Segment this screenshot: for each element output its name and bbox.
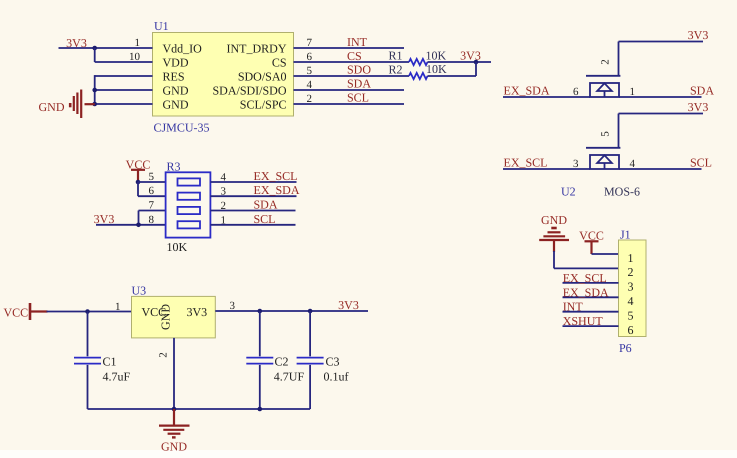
svg-text:SCL: SCL xyxy=(254,212,276,226)
svg-text:EX_SCL: EX_SCL xyxy=(563,271,607,285)
wire U1 pin2 SCL xyxy=(294,103,405,105)
svg-text:CS: CS xyxy=(347,49,362,63)
R3 internal resistor 1 xyxy=(178,178,201,185)
power symbol VCC bar (U3) xyxy=(30,303,48,320)
IC U1 body CJMCU-35 xyxy=(153,33,294,117)
wire J1 pin4 EX_SDA xyxy=(563,296,619,298)
svg-text:VDD: VDD xyxy=(163,55,189,69)
wire R3 pin1 SCL xyxy=(210,224,295,226)
wire vertical R2 to 3V3 xyxy=(475,62,477,76)
svg-text:GND: GND xyxy=(39,100,65,114)
wire vertical 3V3 to pin10 xyxy=(94,48,96,62)
wire 3V3 rail (Q-SCL) xyxy=(619,113,704,115)
svg-text:8: 8 xyxy=(149,214,155,226)
svg-text:5: 5 xyxy=(628,309,634,323)
wire VCC to J1 pin1 xyxy=(592,253,619,255)
svg-text:U3: U3 xyxy=(132,283,147,297)
svg-text:SDA: SDA xyxy=(347,77,371,91)
svg-text:5: 5 xyxy=(600,131,612,137)
svg-text:R3: R3 xyxy=(167,159,181,173)
wire J1 pin3 EX_SCL xyxy=(563,282,619,284)
svg-text:1: 1 xyxy=(628,251,634,265)
wire vertical VCC to pin6 xyxy=(137,182,139,196)
wire vertical pin7 to 3V3 xyxy=(138,211,140,225)
svg-text:GND: GND xyxy=(163,83,189,97)
node VCC/pin5 junction xyxy=(136,180,141,185)
svg-text:4: 4 xyxy=(628,294,634,308)
svg-text:INT: INT xyxy=(347,35,368,49)
svg-text:SCL: SCL xyxy=(690,156,712,170)
wire VCC to U3 pin1 xyxy=(47,311,132,313)
wire R2 to junction xyxy=(428,75,477,77)
svg-text:4: 4 xyxy=(630,158,636,170)
svg-text:EX_SCL: EX_SCL xyxy=(254,169,298,183)
capacitor C2 xyxy=(246,311,273,409)
svg-text:6: 6 xyxy=(628,323,634,337)
svg-text:10K: 10K xyxy=(426,48,447,62)
wire ground rail xyxy=(88,408,311,410)
node 3V3/pin8 junction xyxy=(136,223,141,228)
svg-text:MOS-6: MOS-6 xyxy=(604,184,640,198)
wire gate vertical (Q-SDA) xyxy=(618,42,620,76)
wire 3V3 to U1 pin1 xyxy=(59,47,153,49)
wire R3 pin6 xyxy=(138,195,166,197)
svg-text:C3: C3 xyxy=(326,355,340,369)
power symbol VCC bar (J1) xyxy=(585,241,599,254)
wire J1 pin5 INT xyxy=(563,311,619,313)
svg-text:1: 1 xyxy=(630,86,636,98)
svg-text:5: 5 xyxy=(149,171,155,183)
node C2 bottom junction xyxy=(258,407,263,412)
svg-text:VCC: VCC xyxy=(4,306,29,320)
node GND tap junction xyxy=(172,407,177,412)
regulator U3 body xyxy=(132,296,216,338)
svg-text:CJMCU-35: CJMCU-35 xyxy=(154,121,210,135)
wire GND to J1 pin2 xyxy=(554,267,619,269)
svg-text:INT_DRDY: INT_DRDY xyxy=(227,41,287,55)
node C1 junction xyxy=(85,309,90,314)
svg-text:SDA: SDA xyxy=(690,84,714,98)
transistor U2 Q-SCL body xyxy=(590,155,619,169)
svg-text:GND: GND xyxy=(541,213,567,227)
svg-text:1: 1 xyxy=(115,301,121,313)
wire U3 pin3 to 3V3 xyxy=(215,310,368,312)
wire Q-SDA to SDA xyxy=(619,96,702,98)
Q-SCL gate bar xyxy=(586,147,620,149)
wire 3V3 to R3 pin8 xyxy=(96,224,166,226)
svg-text:3V3: 3V3 xyxy=(338,298,359,312)
svg-text:10K: 10K xyxy=(426,62,447,76)
wire R1 to 3V3 xyxy=(428,61,492,63)
svg-text:3: 3 xyxy=(628,280,634,294)
transistor U2 Q-SDA body xyxy=(590,83,619,97)
svg-text:GND: GND xyxy=(159,304,173,330)
wire gate vertical (Q-SCL) xyxy=(618,114,620,148)
wire GND down to pin2 row xyxy=(553,251,555,268)
svg-text:CS: CS xyxy=(272,55,287,69)
svg-text:J1: J1 xyxy=(620,227,631,241)
node 3V3/pin1 junction xyxy=(92,46,97,51)
svg-text:GND: GND xyxy=(163,97,189,111)
power symbol VCC bar (R3) xyxy=(131,170,145,182)
svg-text:SDO/SA0: SDO/SA0 xyxy=(238,69,287,83)
node C3 top junction xyxy=(308,309,313,314)
capacitor C3 xyxy=(297,311,324,409)
svg-text:6: 6 xyxy=(573,86,579,98)
svg-text:3V3: 3V3 xyxy=(460,48,481,62)
R3 internal resistor 4 xyxy=(178,221,201,228)
wire U1 pin10 xyxy=(95,61,153,63)
svg-text:U2: U2 xyxy=(561,184,576,198)
svg-text:0.1uf: 0.1uf xyxy=(324,370,349,384)
svg-text:SCL: SCL xyxy=(347,91,369,105)
resistor network R3 body xyxy=(166,172,211,237)
svg-text:4.7UF: 4.7UF xyxy=(274,370,305,384)
svg-text:10K: 10K xyxy=(167,240,188,254)
wire U3 pin2 down xyxy=(173,338,175,409)
wire Q-SCL to SCL xyxy=(619,168,702,170)
svg-text:P6: P6 xyxy=(619,341,632,355)
wire EX_SDA to Q-SDA xyxy=(503,96,590,98)
wire R3 pin7 xyxy=(139,210,166,212)
wire U1 pin5 SDO to R2 xyxy=(294,75,410,77)
ground symbol (J1) xyxy=(539,228,569,252)
svg-text:C2: C2 xyxy=(275,355,289,369)
svg-text:2: 2 xyxy=(600,59,612,65)
svg-text:RES: RES xyxy=(163,69,185,83)
svg-text:XSHUT: XSHUT xyxy=(563,314,604,328)
wire GND bus vertical xyxy=(94,75,96,104)
resistor R1 zigzag xyxy=(409,59,428,65)
svg-text:C1: C1 xyxy=(103,355,117,369)
svg-text:3: 3 xyxy=(230,300,236,312)
svg-text:INT: INT xyxy=(563,300,584,314)
wire U1 pin RES xyxy=(95,75,153,77)
svg-text:SDA: SDA xyxy=(254,198,278,212)
svg-text:6: 6 xyxy=(149,185,155,197)
svg-text:GND: GND xyxy=(161,440,187,454)
ground symbol (U1 left) xyxy=(70,90,95,119)
svg-text:EX_SDA: EX_SDA xyxy=(254,183,300,197)
wire U1 pin GND row4 xyxy=(95,89,153,91)
wire R3 pin2 SDA xyxy=(210,210,295,212)
node C2 top junction xyxy=(258,309,263,314)
svg-text:EX_SCL: EX_SCL xyxy=(504,156,548,170)
svg-text:7: 7 xyxy=(149,200,155,212)
svg-text:EX_SDA: EX_SDA xyxy=(504,84,550,98)
wire R3 pin4 EX_SCL xyxy=(210,181,296,183)
node R1/R2 3V3 junction xyxy=(474,60,479,65)
svg-text:4.7uF: 4.7uF xyxy=(103,370,131,384)
svg-text:EX_SDA: EX_SDA xyxy=(563,285,609,299)
svg-text:R1: R1 xyxy=(389,49,403,63)
wire 3V3 rail (Q-SDA) xyxy=(619,41,704,43)
svg-text:SDA/SDI/SDO: SDA/SDI/SDO xyxy=(212,83,286,97)
svg-text:SDO: SDO xyxy=(347,62,371,76)
svg-text:Vdd_IO: Vdd_IO xyxy=(163,41,203,55)
svg-text:3V3: 3V3 xyxy=(187,305,208,319)
wire U1 pin GND row5 xyxy=(95,103,153,105)
capacitor C1 xyxy=(74,312,101,410)
svg-text:3V3: 3V3 xyxy=(94,212,115,226)
wire J1 pin6 XSHUT xyxy=(563,325,619,327)
svg-text:3V3: 3V3 xyxy=(688,28,709,42)
svg-text:2: 2 xyxy=(158,352,170,358)
Q-SDA gate bar xyxy=(586,75,620,77)
wire R3 pin3 EX_SDA xyxy=(210,195,296,197)
node GND bus row4 junction xyxy=(92,88,97,93)
resistor R2 zigzag xyxy=(409,73,428,79)
wire U1 pin4 SDA xyxy=(294,89,405,91)
ground symbol (bottom) xyxy=(159,409,190,437)
wire R3 pin5 xyxy=(138,181,166,183)
svg-text:SCL/SPC: SCL/SPC xyxy=(240,97,287,111)
svg-text:3: 3 xyxy=(573,158,579,170)
R3 internal resistor 3 xyxy=(178,207,201,214)
svg-text:U1: U1 xyxy=(154,19,169,33)
svg-text:2: 2 xyxy=(628,265,634,279)
wire EX_SCL to Q-SCL xyxy=(503,168,590,170)
R3 internal resistor 2 xyxy=(178,193,201,200)
wire U1 pin7 INT xyxy=(294,47,405,49)
svg-text:R2: R2 xyxy=(389,62,403,76)
connector J1 body xyxy=(619,240,647,337)
svg-text:3V3: 3V3 xyxy=(688,100,709,114)
svg-text:3V3: 3V3 xyxy=(66,36,87,50)
node GND bus row5 junction xyxy=(92,102,97,107)
wire U1 pin6 CS to R1 xyxy=(294,61,410,63)
